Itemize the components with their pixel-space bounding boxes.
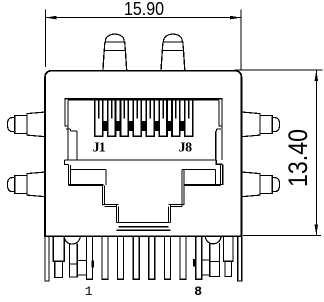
arrowhead down: [315, 224, 319, 235]
pin 8 side mark: [193, 259, 196, 266]
socket right wall inner: [218, 100, 220, 126]
inner shelf line left: [71, 169, 106, 171]
socket left wall inner: [67, 100, 69, 159]
web between pin 8 and right dome leg: [202, 260, 210, 275]
riser left 2: [116, 205, 118, 223]
right peg lower: [242, 172, 261, 197]
tread left: [68, 183, 103, 185]
svg-text:13.40: 13.40: [283, 129, 313, 187]
slot floor lines: [117, 222, 171, 224]
web between dome leg and pin 1: [77, 259, 86, 261]
top post 1: [103, 50, 127, 70]
dimension 13.40 extension line top: [235, 69, 323, 71]
pin 1 leg: [86, 236, 92, 279]
right peg upper: [242, 112, 261, 137]
left peg upper: [27, 112, 46, 137]
top post 2: [161, 50, 185, 70]
connector body outline: [45, 71, 242, 237]
right wide leg: [224, 236, 233, 261]
riser right: [181, 170, 183, 207]
left shield tab: [45, 236, 49, 281]
contact slot 1: [95, 100, 103, 136]
contact slot 5: [146, 100, 154, 136]
shelf right hook: [216, 160, 222, 164]
tread left 2: [102, 204, 118, 206]
socket right wall outer: [221, 98, 223, 160]
dimension 15.90 extension line left: [44, 10, 46, 68]
pin 2 leg: [102, 236, 108, 279]
right wall below shelf: [222, 164, 224, 185]
socket opening top edge (thick): [64, 98, 222, 100]
svg-text:J1: J1: [93, 141, 106, 156]
left dome leg: [69, 243, 77, 277]
socket left depth wall: [76, 131, 78, 160]
pin 1 side mark: [91, 261, 94, 268]
contact slot 4: [133, 100, 141, 136]
pin 4 leg: [133, 236, 139, 279]
socket left wall step: [64, 125, 68, 127]
tread right 2: [169, 204, 185, 206]
riser right 2: [170, 205, 172, 223]
svg-text:8: 8: [194, 284, 202, 299]
contact slot 2: [108, 100, 116, 136]
pin 5 leg: [149, 236, 155, 279]
right dome boss: [206, 237, 221, 244]
svg-text:15.90: 15.90: [124, 0, 164, 19]
svg-text:1: 1: [85, 284, 93, 299]
contact slot 6: [159, 100, 167, 136]
pin 3 leg: [118, 236, 124, 279]
dimension 13.40 line: [315, 70, 317, 235]
socket left wall outer: [64, 98, 66, 126]
tread right: [184, 183, 223, 185]
socket right wall step: [219, 125, 223, 127]
dimension 15.90 extension line right: [240, 10, 242, 70]
contact slot 8: [185, 100, 193, 136]
arrowhead up: [315, 70, 319, 81]
arrowhead right: [230, 16, 241, 20]
socket shelf line: [65, 159, 217, 161]
dimension 13.40 extension line bottom: [243, 234, 321, 236]
socket right depth wall: [215, 131, 217, 160]
riser left: [101, 184, 103, 205]
right dome leg: [210, 243, 220, 276]
pin 7 leg: [180, 236, 186, 279]
pin 8 leg: [196, 236, 202, 279]
left wide leg: [53, 236, 64, 261]
contact slot 7: [172, 100, 180, 136]
shelf left hook: [65, 160, 69, 165]
contact slot 3: [121, 100, 129, 136]
pin 6 leg: [164, 236, 170, 279]
left peg lower: [27, 172, 46, 197]
arrowhead left: [45, 16, 56, 20]
svg-text:J8: J8: [179, 141, 193, 156]
left dome boss: [64, 237, 80, 244]
dimension 15.90 line: [45, 17, 241, 19]
left wall below shelf: [67, 164, 69, 185]
right shield tab: [238, 236, 242, 281]
inner shelf line right: [182, 169, 216, 171]
